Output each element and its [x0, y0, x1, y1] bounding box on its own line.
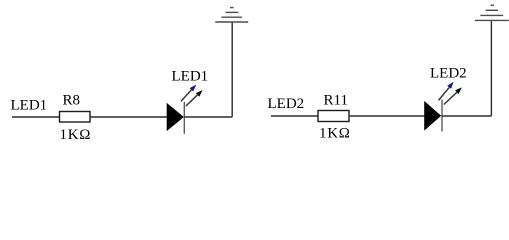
svg-text:1KΩ: 1KΩ	[60, 127, 92, 143]
svg-text:1KΩ: 1KΩ	[319, 125, 351, 141]
wire	[442, 115, 492, 117]
resistor R11	[318, 111, 349, 122]
wire	[349, 115, 425, 117]
LED LED2	[425, 82, 462, 132]
ground (earth, left)	[215, 8, 248, 22]
svg-text:R11: R11	[324, 93, 348, 109]
ground (earth, right)	[475, 5, 509, 20]
wire	[271, 115, 318, 117]
svg-text:LED2: LED2	[430, 66, 467, 82]
wire	[12, 116, 60, 118]
svg-text:LED1: LED1	[11, 98, 48, 114]
resistor R8	[60, 112, 91, 123]
svg-text:R8: R8	[63, 93, 81, 109]
wire (riser to ground)	[490, 20, 492, 116]
svg-text:LED2: LED2	[268, 96, 305, 112]
wire	[185, 116, 233, 118]
svg-text:LED1: LED1	[172, 69, 209, 85]
wire	[90, 116, 168, 118]
wire (riser to ground)	[231, 22, 233, 117]
LED LED1	[167, 85, 203, 134]
